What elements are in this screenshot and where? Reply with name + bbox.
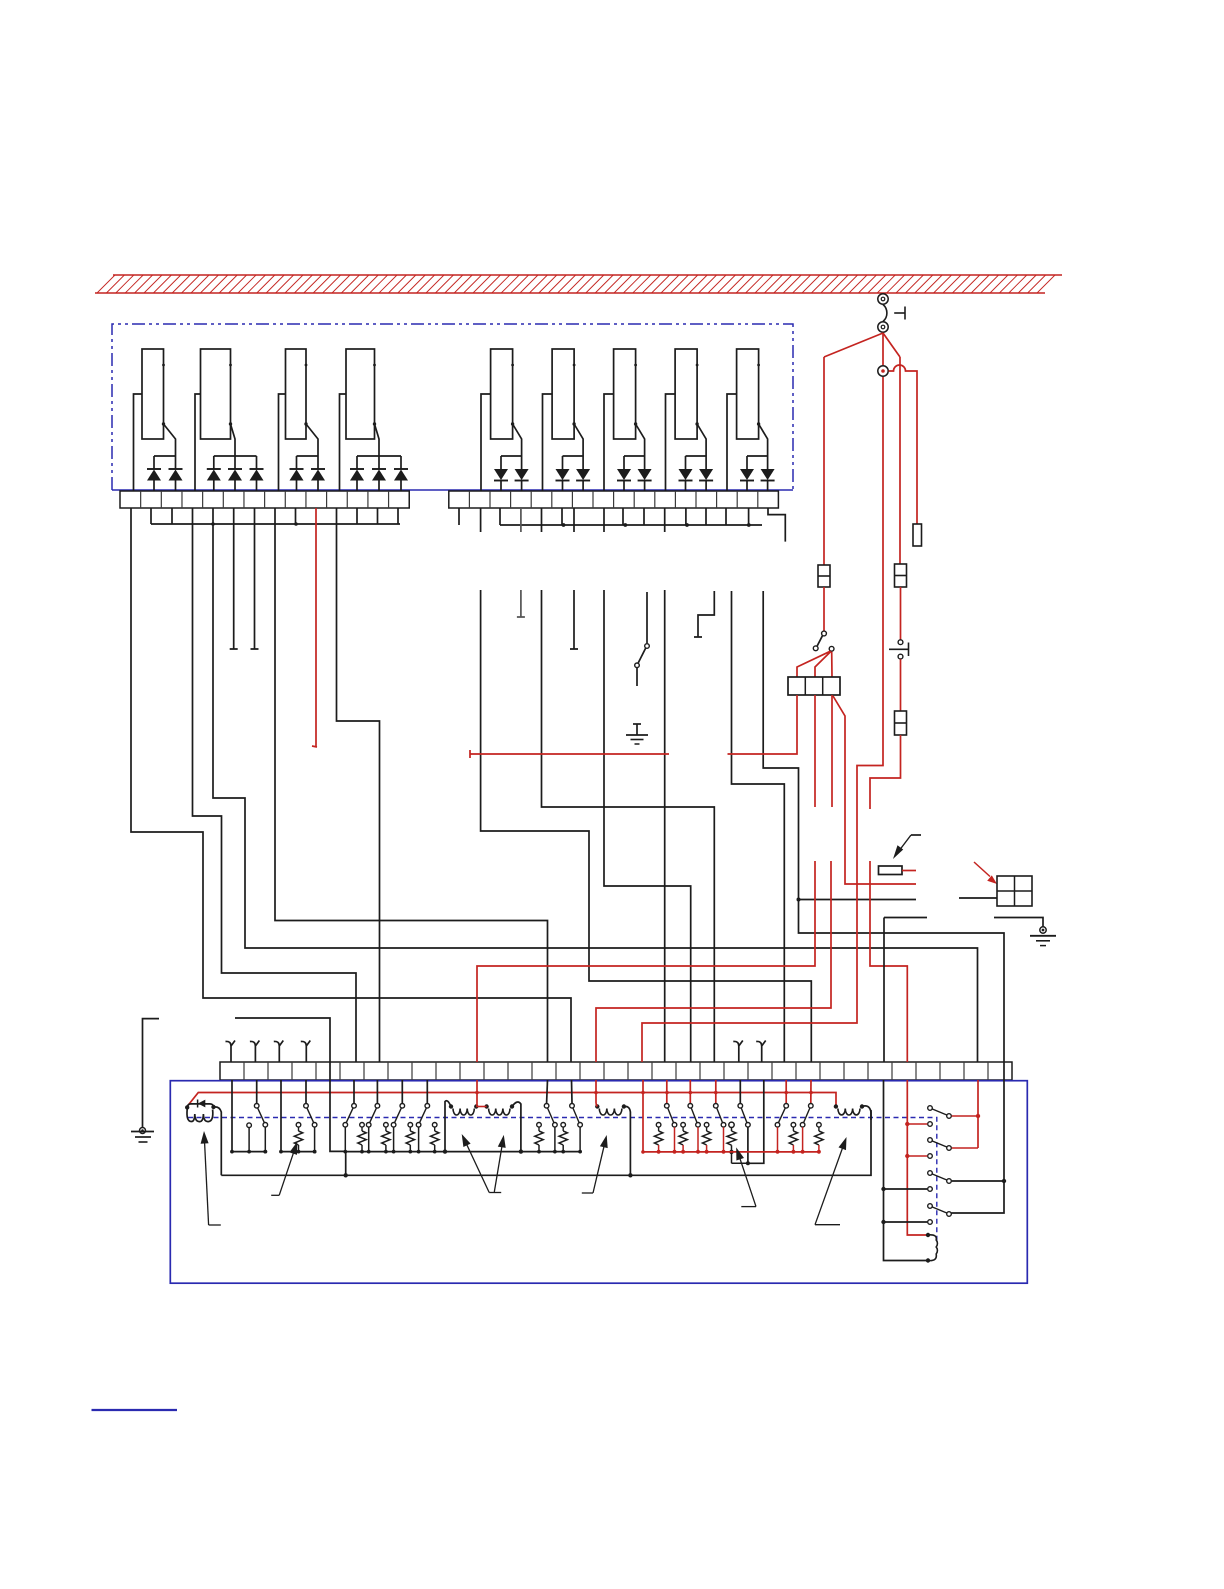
junction bbox=[1002, 1179, 1006, 1183]
wire stub T4 bbox=[570, 508, 578, 649]
diode D91 bbox=[740, 456, 754, 491]
diode D23 bbox=[250, 456, 264, 491]
diode D12 bbox=[169, 456, 183, 491]
switch S16 bbox=[544, 1104, 557, 1154]
annotation arrow A2 bbox=[271, 1142, 297, 1196]
wire bbox=[345, 1152, 347, 1176]
relay K4 bbox=[340, 349, 402, 491]
relay K5 bbox=[481, 349, 522, 491]
wire bbox=[376, 1080, 378, 1103]
wire W-red-1 bbox=[312, 508, 317, 747]
annotation red arrow bbox=[974, 862, 997, 884]
relay coil L2 bbox=[476, 1102, 523, 1154]
wire stub bbox=[725, 508, 727, 525]
switch S19 bbox=[688, 1104, 700, 1154]
block X1 bbox=[997, 876, 1032, 906]
resistor R11 bbox=[358, 1123, 366, 1154]
resistor R22 bbox=[815, 1123, 823, 1154]
wire bbox=[280, 1080, 282, 1152]
relay K7 bbox=[604, 349, 645, 491]
wire bbox=[870, 861, 907, 1062]
wire red seg bbox=[470, 750, 669, 758]
junction bbox=[689, 1091, 693, 1095]
footnote rule bbox=[92, 1409, 178, 1411]
wire bbox=[477, 861, 815, 1062]
wire net N bbox=[235, 1018, 330, 1062]
fuse F3 bbox=[895, 711, 907, 735]
switch S3 bbox=[635, 592, 650, 686]
annotation arrow A0 bbox=[893, 835, 921, 859]
junction bbox=[673, 1150, 677, 1154]
wire bbox=[748, 1080, 764, 1163]
annotation arrow A3 bbox=[462, 1134, 502, 1193]
resistor R12 bbox=[382, 1123, 390, 1154]
pushbutton S2 bbox=[889, 640, 909, 659]
junction bbox=[926, 1233, 930, 1237]
resistor R20 bbox=[727, 1122, 748, 1163]
wire bbox=[952, 1181, 1005, 1213]
switch S12 bbox=[343, 1104, 356, 1154]
switch S24 bbox=[928, 1106, 952, 1119]
switch S22 bbox=[775, 1104, 788, 1154]
relay coil L3 bbox=[595, 1080, 630, 1175]
bus line bbox=[221, 1110, 871, 1175]
wire net K bbox=[732, 591, 785, 1062]
annotation arrow A4 bbox=[494, 1135, 505, 1192]
switch S27 bbox=[928, 1204, 952, 1217]
junction bbox=[809, 1091, 813, 1095]
wire stub curled bbox=[301, 1041, 311, 1063]
diode D42 bbox=[372, 456, 386, 491]
switch S10 bbox=[254, 1104, 267, 1154]
bus G2 bbox=[279, 1150, 316, 1154]
wire stub bbox=[458, 508, 460, 525]
wire bbox=[977, 1080, 979, 1116]
diode D71 bbox=[617, 456, 631, 491]
wire bbox=[884, 917, 927, 919]
wire net B bbox=[193, 508, 357, 1062]
wire stub curled bbox=[274, 1041, 284, 1063]
wire bbox=[814, 695, 816, 807]
wire rail red bbox=[907, 1080, 928, 1235]
wire bbox=[666, 1080, 668, 1104]
ground GND2 bbox=[1030, 927, 1056, 946]
wire bbox=[231, 1080, 233, 1152]
wire stub bbox=[377, 508, 379, 524]
wire stub curled bbox=[733, 1041, 743, 1063]
relay coil L4 bbox=[834, 1104, 871, 1120]
terminal block TB4 bbox=[788, 677, 840, 695]
wire bbox=[823, 587, 825, 631]
diode D81 bbox=[679, 456, 693, 491]
wire bbox=[642, 377, 883, 1062]
wire bbox=[546, 1080, 549, 1103]
switch S14 bbox=[391, 1104, 404, 1154]
diode D43 bbox=[394, 456, 408, 491]
junction bbox=[747, 523, 751, 527]
contact bbox=[928, 1220, 933, 1225]
switch S20 bbox=[714, 1104, 726, 1154]
wire stub bbox=[356, 508, 358, 524]
wire bbox=[833, 696, 916, 884]
relay K6 bbox=[543, 349, 584, 491]
wire TB1 bus bbox=[151, 522, 400, 526]
wire hook M bbox=[694, 591, 714, 637]
wire bbox=[900, 659, 902, 711]
wire bbox=[977, 1116, 979, 1148]
diode D32 bbox=[311, 456, 325, 491]
resistor R21 bbox=[789, 1123, 797, 1154]
wire bbox=[739, 1080, 741, 1103]
junction bbox=[792, 1150, 796, 1154]
junction bbox=[817, 1150, 821, 1154]
relay coil L0 with diode D10 bbox=[185, 1100, 221, 1176]
wire bbox=[353, 1080, 355, 1103]
junction bbox=[657, 1150, 661, 1154]
diode D72 bbox=[638, 456, 652, 491]
wire net C bbox=[213, 508, 978, 1062]
connector CN2 bbox=[878, 366, 888, 376]
fuse F2 bbox=[895, 564, 907, 587]
relay K3 bbox=[279, 349, 319, 491]
wire bbox=[959, 897, 997, 899]
coil L5 bbox=[928, 1235, 937, 1261]
wire stub bbox=[622, 508, 624, 525]
wire stub bbox=[685, 508, 687, 525]
wire bbox=[401, 1080, 403, 1103]
wire branch bbox=[799, 899, 917, 901]
wire bbox=[571, 1080, 574, 1103]
junction bbox=[562, 523, 566, 527]
annotation arrow A7 bbox=[815, 1137, 847, 1225]
wire bbox=[994, 918, 1043, 927]
junction bbox=[344, 1173, 348, 1177]
junction bbox=[784, 1091, 788, 1095]
junction bbox=[685, 523, 689, 527]
switch S17 bbox=[570, 1104, 583, 1154]
wire bbox=[728, 695, 798, 754]
wire stub T2 bbox=[251, 508, 259, 649]
resistor R14 bbox=[431, 1123, 439, 1154]
switch S13 bbox=[366, 1104, 379, 1154]
resistor R17 bbox=[654, 1123, 662, 1154]
switch S26 bbox=[928, 1171, 952, 1184]
junction bbox=[623, 523, 627, 527]
junction bbox=[801, 1150, 805, 1154]
diode D11 bbox=[147, 456, 161, 491]
wire bbox=[905, 1122, 927, 1126]
wire bbox=[426, 1080, 428, 1103]
junction bbox=[696, 1150, 700, 1154]
wire bbox=[143, 1019, 160, 1127]
wire bbox=[870, 735, 901, 809]
wire bbox=[900, 587, 902, 640]
wire bbox=[715, 1080, 717, 1104]
switch S25 bbox=[928, 1138, 952, 1151]
terminal strip TB3 bbox=[220, 1062, 1012, 1080]
wire bbox=[952, 1115, 978, 1117]
junction bbox=[776, 1150, 780, 1154]
wire stub bbox=[705, 508, 707, 525]
switch S18 bbox=[665, 1104, 677, 1154]
relay K2 bbox=[195, 349, 257, 491]
wire stub bbox=[397, 508, 399, 524]
annotation arrow A1 bbox=[201, 1131, 221, 1225]
wire net F bbox=[481, 508, 812, 1062]
wire bbox=[810, 1080, 812, 1103]
fuse F4 bbox=[879, 866, 903, 875]
relay K8 bbox=[666, 349, 707, 491]
wire net I bbox=[664, 508, 666, 1062]
diode D21 bbox=[207, 456, 221, 491]
resistor R15 bbox=[535, 1123, 543, 1154]
diode D82 bbox=[699, 456, 713, 491]
relay K9 bbox=[727, 349, 768, 491]
wire bbox=[689, 1080, 691, 1104]
connector CN1 bbox=[878, 294, 905, 332]
contact bbox=[928, 1122, 933, 1127]
diode D61 bbox=[556, 456, 570, 491]
junction bbox=[681, 1150, 685, 1154]
bus G3-G4 bbox=[346, 1151, 580, 1153]
bus G1 bbox=[230, 1150, 267, 1154]
wire net H bbox=[604, 508, 691, 1062]
wire red V2 bbox=[899, 357, 901, 564]
wire bbox=[881, 1187, 927, 1191]
junction bbox=[594, 1091, 598, 1095]
wire bbox=[476, 1080, 478, 1107]
junction bbox=[926, 1258, 930, 1262]
wire net D bbox=[275, 508, 548, 1062]
contact stub bbox=[247, 1123, 252, 1154]
switch S11 bbox=[304, 1104, 317, 1154]
junction bbox=[746, 1161, 750, 1165]
junction bbox=[641, 1150, 645, 1154]
switch S1 bbox=[813, 631, 834, 651]
red bus bbox=[187, 1093, 836, 1107]
wire bbox=[905, 1154, 927, 1158]
junction bbox=[641, 1091, 645, 1095]
wire stub bbox=[295, 508, 297, 524]
diode D62 bbox=[576, 456, 590, 491]
wire stub curled bbox=[250, 1041, 260, 1063]
junction bbox=[628, 1173, 632, 1177]
diode D31 bbox=[290, 456, 304, 491]
capacitor C1 bbox=[913, 524, 922, 546]
wire bbox=[952, 1147, 978, 1149]
junction bbox=[475, 1091, 479, 1095]
junction bbox=[722, 1150, 726, 1154]
wire bbox=[747, 1127, 749, 1163]
wire bbox=[596, 861, 831, 1062]
ground GND3 bbox=[131, 1128, 154, 1143]
wire rail bbox=[884, 1080, 929, 1261]
switch S23 bbox=[800, 1104, 813, 1154]
dash-dot enclosure (relay assembly) bbox=[112, 324, 793, 490]
resistor R18 bbox=[679, 1123, 687, 1154]
hatched barrier bar bbox=[95, 275, 1062, 293]
wire stub bbox=[171, 508, 173, 524]
resistor R13 bbox=[406, 1123, 414, 1154]
switch S15 bbox=[416, 1104, 429, 1154]
wire stub bbox=[643, 508, 645, 525]
wire stub bbox=[499, 508, 501, 525]
switch S21 bbox=[738, 1104, 750, 1128]
wire bbox=[330, 1062, 346, 1151]
wire bbox=[902, 870, 916, 872]
wire bbox=[881, 1220, 927, 1224]
wire bbox=[952, 1180, 1004, 1182]
annotation arrow A6 bbox=[736, 1147, 756, 1206]
resistor R19 bbox=[702, 1123, 710, 1154]
diode D22 bbox=[228, 456, 242, 491]
contact bbox=[928, 1187, 933, 1192]
red bus G5 bbox=[643, 1151, 819, 1153]
junction bbox=[797, 898, 801, 902]
wire net E bbox=[337, 508, 380, 1062]
diode D41 bbox=[350, 456, 364, 491]
wire stub curled bbox=[756, 1041, 766, 1063]
wire stub T3 bbox=[517, 508, 525, 617]
relay K1 bbox=[134, 349, 176, 491]
wire stub bbox=[748, 508, 750, 525]
terminal strip TB2 bbox=[449, 491, 779, 508]
wire bbox=[785, 1080, 787, 1103]
diode D52 bbox=[515, 456, 529, 491]
ground GND1 bbox=[626, 724, 648, 744]
wire red V1 bbox=[823, 357, 825, 565]
diode D51 bbox=[494, 456, 508, 491]
wire bbox=[642, 1080, 644, 1152]
wire stub curled bbox=[226, 1041, 236, 1063]
wire red fan S1 bbox=[797, 651, 832, 677]
wire bbox=[883, 918, 885, 1063]
junction bbox=[976, 1114, 980, 1118]
resistor R16 bbox=[559, 1123, 567, 1154]
dashed datum line bbox=[188, 1118, 937, 1243]
wire net G bbox=[542, 508, 715, 1062]
junction bbox=[705, 1150, 709, 1154]
wire net J jog bbox=[768, 508, 785, 542]
diode D92 bbox=[761, 456, 775, 491]
wire bbox=[256, 1080, 258, 1103]
wire TB2 bus bbox=[500, 524, 762, 526]
wire bbox=[831, 695, 833, 807]
wire stub bbox=[561, 508, 563, 525]
annotation arrow A5 bbox=[582, 1135, 608, 1193]
relay coil L1 bbox=[443, 1101, 479, 1154]
wire net A bbox=[131, 508, 571, 1062]
junction bbox=[714, 1091, 718, 1095]
wire net L bbox=[763, 591, 1004, 1062]
fuse F1 bbox=[818, 565, 830, 587]
contact bbox=[928, 1154, 933, 1159]
wire stub bbox=[150, 508, 152, 524]
enclosure box (bottom unit) bbox=[170, 1081, 1027, 1284]
wire bbox=[1003, 1062, 1005, 1181]
wire stub T1 bbox=[230, 508, 238, 649]
terminal strip TB1 bbox=[120, 491, 409, 508]
junction bbox=[665, 1091, 669, 1095]
wire red hop bbox=[889, 365, 917, 524]
resistor R10 bbox=[294, 1123, 302, 1154]
wire red fan bbox=[824, 333, 900, 365]
wire bbox=[305, 1080, 307, 1103]
